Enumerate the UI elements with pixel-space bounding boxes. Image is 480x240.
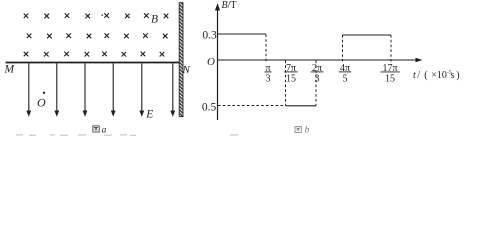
dashed vert at 7pi/15: [285, 61, 287, 106]
svg-text:0.5: 0.5: [202, 102, 217, 114]
dashed vert at 2pi/3: [315, 61, 317, 106]
tick label 4pi/5: [339, 63, 352, 85]
B axis: [215, 3, 220, 120]
dashed vert at 17pi/15: [390, 35, 392, 62]
E field arrow 1: [26, 64, 31, 117]
svg-text:15: 15: [286, 73, 296, 84]
svg-text:a: a: [102, 125, 107, 135]
svg-text:5: 5: [343, 73, 348, 84]
tick label 17pi/15: [381, 63, 400, 85]
magnetic field x row 1: [24, 13, 169, 18]
magnetic field x row 2: [27, 33, 168, 38]
caption fig a: [93, 125, 107, 135]
svg-text:3: 3: [315, 73, 320, 84]
plate line M-N: [6, 62, 180, 64]
faint scan specks bottom: [16, 134, 238, 137]
svg-text:B/T: B/T: [222, 0, 237, 11]
E field arrow 4: [111, 64, 116, 117]
svg-text:3: 3: [266, 73, 271, 84]
magnetic field x row 3: [24, 52, 165, 57]
pulse 1 top (B=0.3): [218, 33, 266, 35]
svg-text:E: E: [145, 109, 153, 121]
screen bar (hatched): [179, 3, 183, 117]
E field arrow 5: [139, 64, 144, 117]
svg-text:0.3: 0.3: [202, 30, 217, 42]
svg-text:O: O: [37, 96, 46, 110]
tick label 7pi/15: [284, 63, 298, 85]
svg-text:15: 15: [385, 73, 395, 84]
E field arrow 3: [83, 64, 88, 117]
E field arrow 2: [54, 64, 59, 117]
dashed -0.5 reference: [218, 105, 286, 107]
dashed vert at 4pi/5: [342, 35, 344, 62]
caption fig b: [295, 126, 310, 136]
pulse B=-0.5 solid: [286, 105, 317, 107]
svg-text:O: O: [207, 56, 215, 68]
pulse 2 top (B=0.3): [343, 34, 392, 36]
dashed drop at pi/3: [265, 35, 267, 62]
tick label pi/3: [265, 63, 272, 85]
svg-text:t/(×10-5s): t/(×10-5s): [413, 70, 460, 82]
svg-text:B: B: [151, 14, 158, 26]
stray dot speck row 1: [101, 14, 103, 16]
t axis: [218, 58, 423, 63]
E field arrow 6: [170, 64, 175, 117]
svg-text:b: b: [305, 126, 310, 136]
point O (dot): [43, 92, 45, 94]
tick label 2pi/3: [311, 63, 324, 85]
svg-text:M: M: [4, 64, 16, 76]
